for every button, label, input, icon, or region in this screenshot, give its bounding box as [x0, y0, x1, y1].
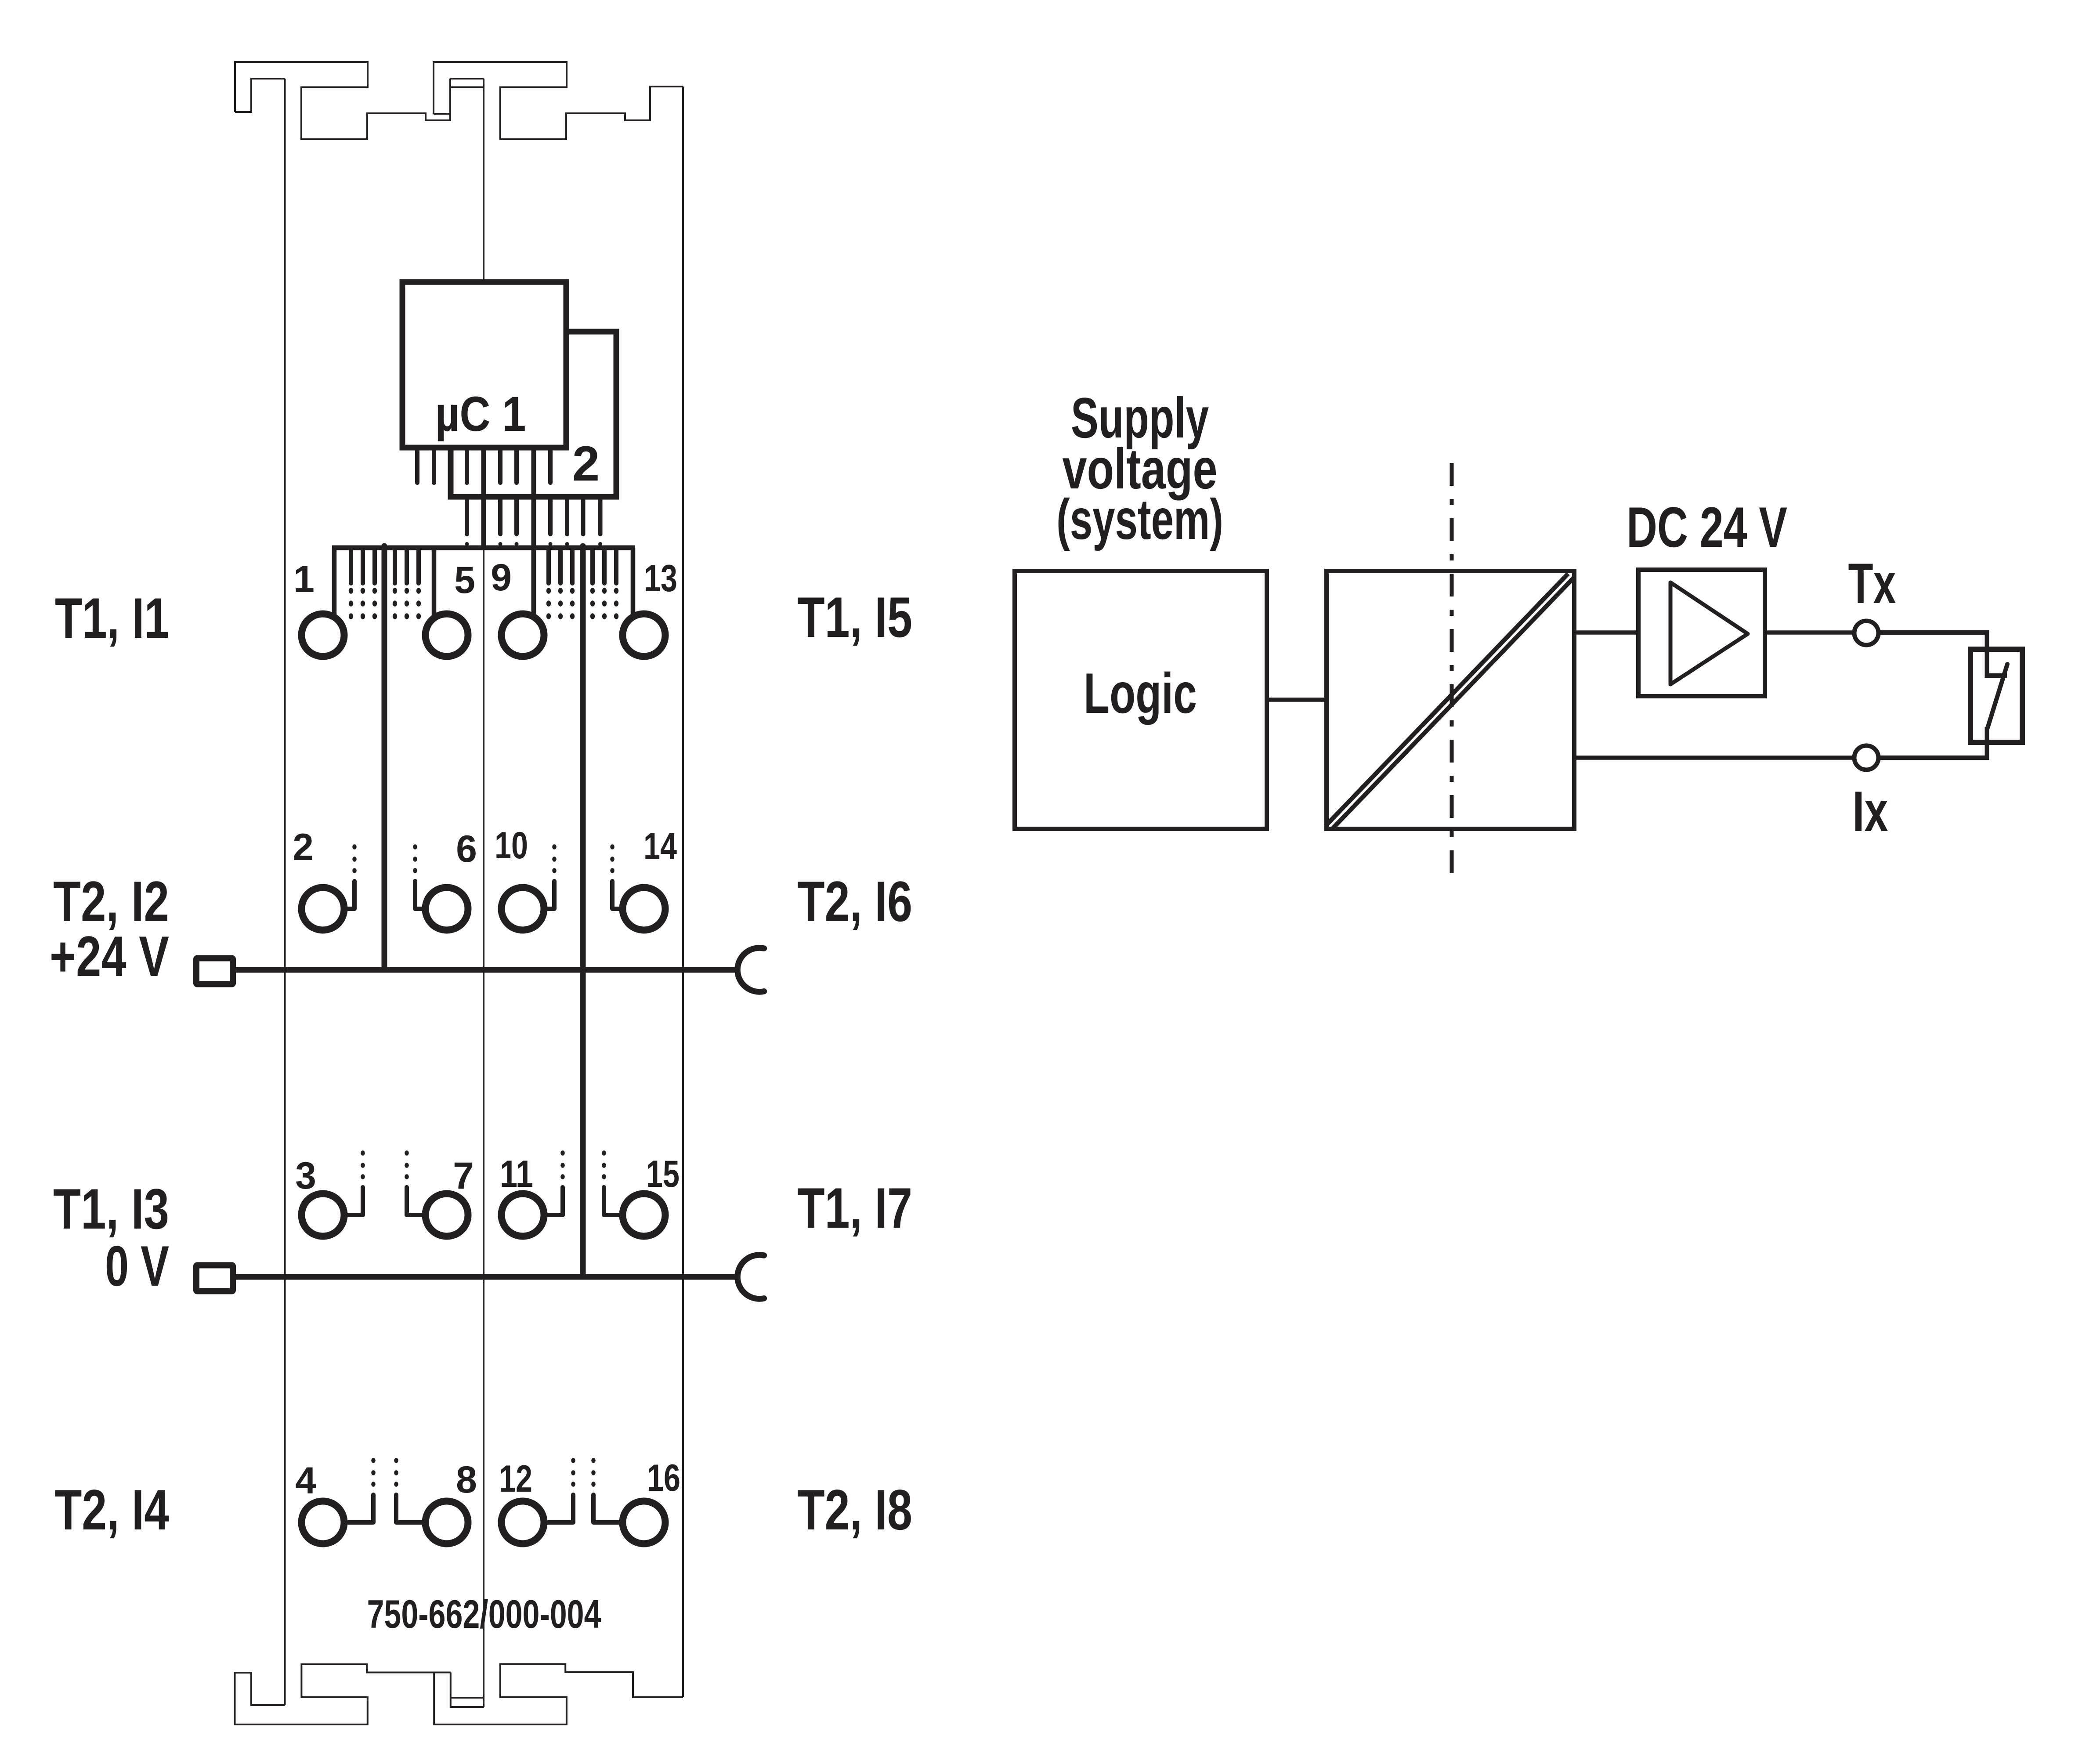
svg-text:(system): (system) [1056, 487, 1223, 551]
wire tab2 inner shelf [450, 87, 484, 88]
wire tab2 inner step [434, 113, 450, 115]
wire hook contact 4 [323, 1495, 373, 1522]
wire module bottom profile left [235, 1664, 451, 1724]
terminal contact 6 [426, 888, 468, 930]
pin uC2 pin 5 [565, 499, 569, 534]
IC U2 (uC 2 box, behind) [451, 332, 616, 497]
terminal contact 5 [426, 614, 468, 657]
svg-text:11: 11 [500, 1153, 533, 1195]
wire hook contact 12 [523, 1495, 573, 1522]
terminal contact 13 [623, 614, 665, 657]
svg-text:Logic: Logic [1084, 661, 1197, 725]
terminal contact 12 [502, 1501, 544, 1544]
wire dotted tap continuations [349, 588, 353, 594]
svg-text:3: 3 [295, 1155, 316, 1197]
wire driver to Tx terminal [1765, 630, 1854, 635]
svg-text:9: 9 [491, 557, 512, 599]
wire hook contact 15 [604, 1187, 644, 1215]
wire module middle line lower [483, 549, 484, 1707]
pin uC1 pin 6 [548, 450, 553, 483]
wire module top-left notch [235, 79, 285, 112]
pin uC1 pin 2 [432, 450, 436, 483]
terminal contact 9 [502, 614, 544, 657]
svg-text:T1, I7: T1, I7 [797, 1176, 912, 1240]
svg-text:14: 14 [643, 825, 677, 868]
node Ix terminal [1854, 746, 1879, 770]
svg-text:2: 2 [293, 826, 314, 868]
svg-text:T1, I1: T1, I1 [55, 586, 169, 650]
wire hook contact 6 [415, 881, 447, 909]
pin uC2 pin 4 [548, 499, 553, 534]
svg-text:+24 V: +24 V [50, 924, 169, 988]
pin uC2 pin 7 [598, 499, 603, 534]
wire dotted pin continuations above bar [465, 542, 469, 546]
wire hook contact 8 [396, 1495, 447, 1522]
terminal contact 8 [426, 1501, 468, 1544]
node 0V rail with terminal lug and socket arc [196, 1265, 233, 1291]
wire module top profile slice-2 tab [434, 62, 683, 139]
wire isolator to driver [1574, 630, 1638, 635]
pin uC2 pin 1 [465, 499, 469, 534]
svg-text:5: 5 [454, 559, 475, 601]
node +24V rail with terminal lug and socket arc [196, 958, 233, 984]
svg-text:T2, I6: T2, I6 [797, 869, 912, 933]
terminal contact 14 [623, 888, 665, 930]
svg-text:4: 4 [295, 1460, 316, 1502]
wire module top profile slice-1 tab [235, 62, 450, 139]
terminal contact 4 [302, 1501, 344, 1544]
svg-text:T2, I4: T2, I4 [54, 1478, 169, 1542]
wire module bottom pocket shelf [451, 1697, 484, 1699]
wire module left edge [284, 79, 286, 1705]
wire module middle line upper (to uC box) [483, 79, 484, 283]
wire hook contact 7 [407, 1187, 447, 1215]
wire drop to contact 5 [432, 548, 437, 616]
terminal contact 15 [623, 1194, 665, 1236]
wire hook contact 2 [323, 881, 354, 909]
svg-text:7: 7 [453, 1155, 474, 1197]
wire uC1 bus drop to terminal bar [481, 448, 486, 548]
pin uC2 pin 6 [581, 499, 586, 534]
terminal contact 7 [426, 1194, 468, 1236]
node Tx terminal [1854, 621, 1879, 645]
wire Logic to isolator [1267, 698, 1327, 702]
wire hook contact 16 [593, 1495, 644, 1522]
pin uC2 pin 2 [498, 499, 502, 534]
wire +24V internal bus [382, 546, 387, 970]
svg-text:13: 13 [644, 557, 677, 600]
terminal contact 1 [302, 614, 344, 657]
wire hook contact 11 [523, 1187, 563, 1215]
block Logic [1015, 571, 1267, 829]
terminal contact 11 [502, 1194, 544, 1236]
pin uC1 pin 1 [415, 450, 419, 483]
wire hook contact 10 [523, 881, 554, 909]
wire galvanic isolation dash-dot boundary [1450, 463, 1454, 886]
terminal contact 3 [302, 1194, 344, 1236]
svg-text:6: 6 [456, 828, 477, 870]
wire uC bus drop to contact 9 [531, 448, 536, 617]
sensor RTD element [1880, 633, 2007, 676]
svg-text:1: 1 [293, 558, 315, 600]
svg-text:DC 24 V: DC 24 V [1627, 495, 1787, 559]
symbol driver amplifier triangle [1670, 582, 1748, 684]
wire hook contact 3 [323, 1187, 363, 1215]
svg-text:T1, I5: T1, I5 [797, 585, 912, 649]
terminal contact 2 [302, 888, 344, 930]
svg-text:8: 8 [456, 1459, 477, 1501]
svg-text:2: 2 [572, 436, 600, 491]
svg-text:15: 15 [646, 1153, 680, 1195]
block DC 24 V driver [1638, 570, 1765, 696]
wire module bottom middle pocket [451, 1673, 484, 1707]
wire hook contact 14 [612, 881, 644, 909]
wire bar teeth (internal channel taps) [349, 550, 353, 583]
wire module right edge [682, 87, 684, 1697]
svg-text:750-662/000-004: 750-662/000-004 [367, 1592, 601, 1637]
IC U1 (uC 1 box) [402, 282, 566, 448]
svg-text:12: 12 [499, 1458, 532, 1500]
wire Ix return to isolator [1574, 755, 1854, 760]
wire 0V internal bus [580, 546, 586, 1277]
svg-text:16: 16 [647, 1457, 680, 1499]
pin uC2 pin 3 [514, 499, 519, 534]
symbol isolator diagonal double line [1326, 574, 1568, 826]
terminal contact 16 [623, 1501, 665, 1544]
svg-text:T2, I8: T2, I8 [797, 1478, 912, 1542]
wire drop to contact 1 [332, 548, 337, 616]
pin uC1 pin 3 [465, 450, 469, 483]
svg-text:µC 1: µC 1 [435, 387, 526, 441]
pin uC1 pin 4 [498, 450, 502, 483]
svg-text:0 V: 0 V [105, 1234, 169, 1298]
wire module bottom profile right [434, 1664, 683, 1725]
svg-text:Tx: Tx [1848, 551, 1896, 615]
wire terminal distribution bar [332, 546, 635, 550]
svg-text:Ix: Ix [1853, 779, 1888, 843]
wire tab2 top shelf [450, 78, 484, 80]
wire drop to contact 13 [631, 548, 636, 616]
wire Tx to sensor [1879, 630, 1987, 635]
svg-text:10: 10 [495, 824, 528, 867]
terminal contact 10 [502, 888, 544, 930]
pin uC1 pin 5 [514, 450, 519, 483]
wire sensor to Ix [1879, 755, 1987, 760]
svg-text:T1, I3: T1, I3 [53, 1177, 169, 1241]
block isolator/converter [1327, 571, 1574, 829]
